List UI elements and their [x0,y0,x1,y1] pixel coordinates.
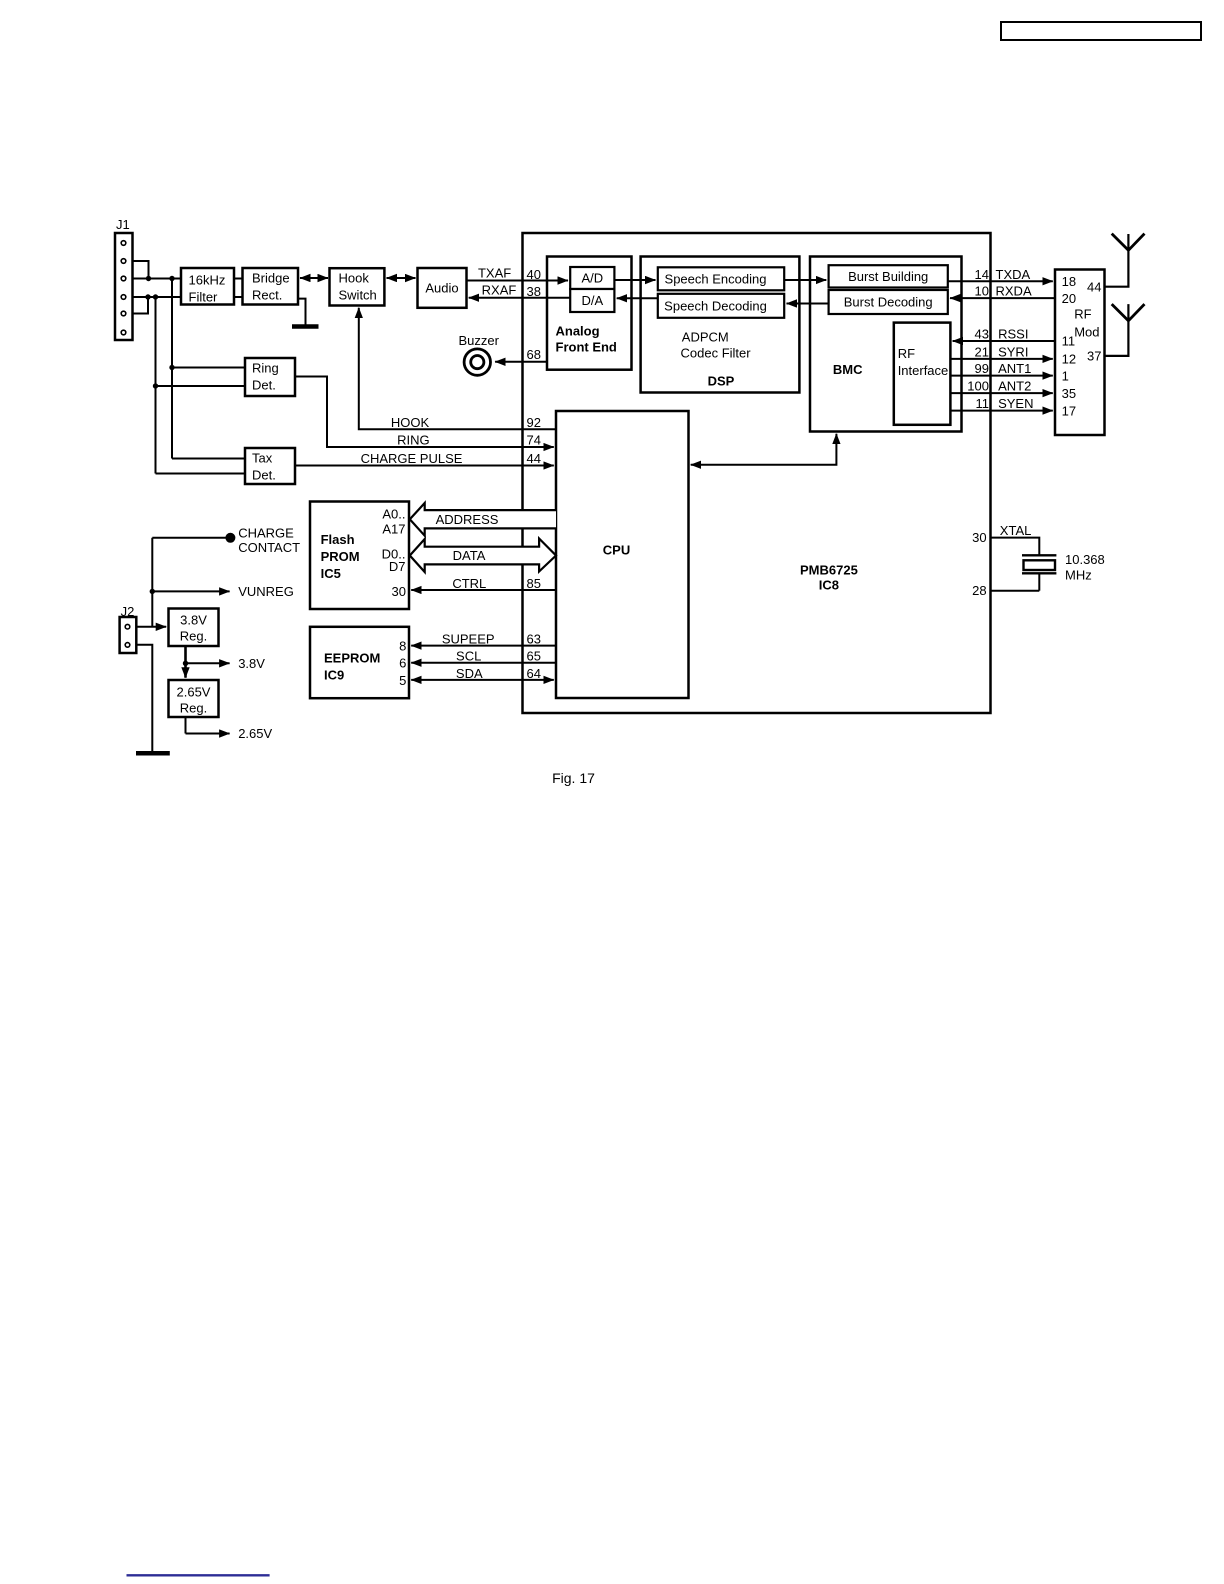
svg-text:HOOK: HOOK [391,415,430,430]
svg-text:43: 43 [975,327,989,342]
svg-text:Fig. 17: Fig. 17 [552,770,595,786]
svg-text:Filter: Filter [189,290,219,305]
svg-text:BMC: BMC [833,362,863,377]
svg-text:Det.: Det. [252,468,276,483]
svg-text:18: 18 [1062,274,1076,289]
svg-text:ADDRESS: ADDRESS [436,512,499,527]
svg-text:EEPROM: EEPROM [324,651,380,666]
svg-text:85: 85 [527,576,541,591]
svg-text:5: 5 [399,673,406,688]
svg-text:74: 74 [527,432,541,447]
svg-text:Reg.: Reg. [180,629,207,644]
svg-text:12: 12 [1062,352,1076,367]
svg-text:11: 11 [976,396,990,411]
svg-text:2.65V: 2.65V [238,726,272,741]
svg-text:A/D: A/D [581,271,603,286]
svg-text:Bridge: Bridge [252,271,290,286]
svg-text:VUNREG: VUNREG [238,584,294,599]
svg-text:CPU: CPU [603,542,630,557]
svg-text:40: 40 [527,267,541,282]
svg-text:DSP: DSP [708,374,735,389]
svg-text:Switch: Switch [339,288,377,303]
svg-text:RF: RF [898,346,915,361]
svg-text:17: 17 [1062,403,1076,418]
svg-text:IC9: IC9 [324,668,344,683]
svg-text:RXAF: RXAF [482,283,517,298]
svg-text:CONTACT: CONTACT [238,540,300,555]
svg-text:3.8V: 3.8V [180,613,207,628]
svg-text:SUPEEP: SUPEEP [442,632,495,647]
svg-text:30: 30 [392,584,406,599]
svg-text:XTAL: XTAL [1000,523,1032,538]
svg-text:10.368: 10.368 [1065,552,1105,567]
svg-text:ADPCM: ADPCM [682,330,729,345]
svg-text:CHARGE: CHARGE [238,526,294,541]
svg-text:Buzzer: Buzzer [458,333,499,348]
svg-text:38: 38 [527,284,541,299]
svg-text:TXAF: TXAF [478,266,511,281]
svg-text:SDA: SDA [456,666,483,681]
svg-text:Hook: Hook [339,271,370,286]
svg-text:Reg.: Reg. [180,701,207,716]
svg-text:14: 14 [975,267,989,282]
svg-text:D/A: D/A [581,293,603,308]
svg-text:Det.: Det. [252,378,276,393]
svg-text:Audio: Audio [425,280,458,295]
svg-text:Ring: Ring [252,361,279,376]
svg-text:37: 37 [1087,349,1101,364]
svg-text:92: 92 [527,415,541,430]
svg-text:68: 68 [527,347,541,362]
svg-text:TXDA: TXDA [996,267,1031,282]
svg-text:Codec Filter: Codec Filter [681,346,752,361]
svg-text:RXDA: RXDA [996,284,1032,299]
svg-text:30: 30 [972,530,986,545]
svg-text:J1: J1 [116,217,130,232]
svg-text:99: 99 [975,361,989,376]
svg-text:A17: A17 [382,522,405,537]
svg-text:CHARGE PULSE: CHARGE PULSE [361,451,463,466]
svg-text:ANT1: ANT1 [998,361,1031,376]
svg-text:D7: D7 [389,559,406,574]
svg-text:8: 8 [399,639,406,654]
svg-text:IC5: IC5 [321,566,341,581]
svg-text:Burst Decoding: Burst Decoding [844,295,933,310]
svg-text:J2: J2 [121,604,135,619]
svg-text:21: 21 [975,345,989,360]
svg-text:63: 63 [527,632,541,647]
svg-text:28: 28 [972,583,986,598]
svg-text:6: 6 [399,656,406,671]
svg-text:44: 44 [527,451,541,466]
svg-text:44: 44 [1087,279,1101,294]
svg-text:1: 1 [1062,368,1069,383]
svg-text:SYEN: SYEN [998,396,1033,411]
svg-text:SYRI: SYRI [998,345,1028,360]
svg-text:11: 11 [1062,334,1076,349]
svg-text:Interface: Interface [898,363,949,378]
svg-text:Mod: Mod [1074,325,1099,340]
svg-text:Speech Decoding: Speech Decoding [664,298,767,313]
svg-text:RING: RING [397,433,430,448]
svg-text:3.8V: 3.8V [238,656,265,671]
svg-text:Speech Encoding: Speech Encoding [665,271,767,286]
svg-text:100: 100 [967,379,989,394]
svg-text:Tax: Tax [252,451,273,466]
svg-text:20: 20 [1062,291,1076,306]
svg-text:CTRL: CTRL [452,576,486,591]
svg-text:Analog: Analog [556,323,600,338]
svg-text:IC8: IC8 [819,577,839,592]
svg-text:16kHz: 16kHz [189,273,226,288]
svg-text:Flash: Flash [321,532,355,547]
svg-text:ANT2: ANT2 [998,379,1031,394]
svg-text:35: 35 [1062,386,1076,401]
svg-text:2.65V: 2.65V [177,685,211,700]
svg-text:64: 64 [527,666,541,681]
svg-text:65: 65 [527,649,541,664]
svg-text:Front End: Front End [556,339,617,354]
svg-text:SCL: SCL [456,649,481,664]
svg-text:MHz: MHz [1065,568,1092,583]
svg-text:Burst Building: Burst Building [848,269,928,284]
svg-text:A0..: A0.. [382,507,405,522]
svg-text:RF: RF [1074,307,1091,322]
svg-text:PROM: PROM [321,549,360,564]
svg-text:RSSI: RSSI [998,327,1028,342]
svg-text:Rect.: Rect. [252,288,282,303]
svg-text:PMB6725: PMB6725 [800,562,858,577]
svg-text:10: 10 [975,284,989,299]
svg-text:DATA: DATA [453,548,486,563]
